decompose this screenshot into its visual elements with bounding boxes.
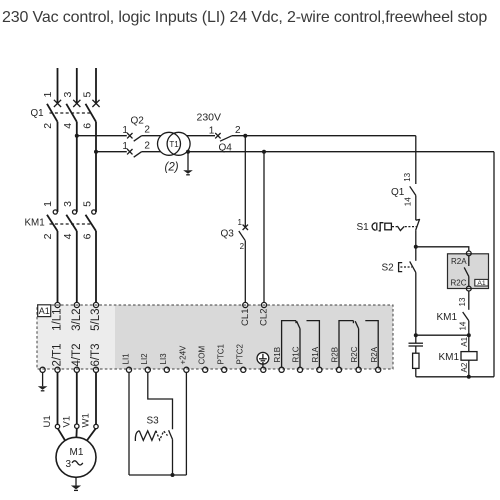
- wire L3 tap to Q2 lower pole: [96, 151, 127, 153]
- aux contact KM1 13-14 blade: [463, 312, 469, 321]
- svg-text:R2C: R2C: [350, 346, 359, 362]
- svg-text:W1: W1: [81, 413, 92, 427]
- breaker Q1 pole 3 blade: [86, 104, 97, 122]
- relay R1 NO arm R1A: [307, 321, 320, 368]
- switch S2 link dashes: [400, 266, 412, 268]
- wire resistor to bottom rail: [415, 368, 417, 376]
- svg-text:5/L3: 5/L3: [90, 309, 102, 331]
- relay R1 changeover contact riser R1B: [282, 321, 296, 368]
- switch S1 NC seat tick: [416, 218, 420, 221]
- motor terminal U1 circle: [55, 424, 59, 428]
- aux contact Q1 13-14 blade: [410, 186, 416, 195]
- breaker Q2 lower pole terminal X: [127, 149, 132, 154]
- svg-text:13: 13: [403, 172, 412, 181]
- contactor KM1 pole 2 terminal circle: [73, 210, 77, 214]
- soft starter block A1 light fill: [37, 305, 115, 369]
- transformer T1 secondary circle: [167, 132, 190, 155]
- transformer T1 primary circle: [158, 132, 181, 155]
- svg-text:1: 1: [122, 141, 128, 152]
- svg-text:Q4: Q4: [219, 143, 233, 154]
- svg-text:1: 1: [122, 125, 128, 136]
- wire junction to R2A box: [416, 247, 469, 251]
- terminal R2B circle: [336, 367, 341, 372]
- wire L2 Q1 to KM1: [76, 122, 78, 212]
- svg-text:3: 3: [62, 92, 74, 98]
- wire PE terminal to ground: [42, 372, 44, 386]
- earth symbol circled cross: [257, 352, 269, 367]
- svg-text:4: 4: [62, 123, 74, 129]
- breaker Q4 blade: [220, 136, 232, 142]
- wire CL1 riser lower: [244, 241, 246, 303]
- svg-text:2: 2: [42, 233, 54, 239]
- node junction CL2 tap: [262, 150, 266, 154]
- svg-text:2: 2: [144, 140, 150, 151]
- wire phase L2 incoming: [76, 68, 78, 103]
- svg-text:Q2: Q2: [131, 116, 145, 127]
- switch S3 thermal zigzag symbol: [135, 431, 156, 441]
- contactor coil KM1 box: [461, 352, 477, 361]
- wire L3 KM1 to block: [95, 231, 97, 303]
- relay output box R2 of A1: [448, 254, 489, 289]
- terminal CL1 circle: [243, 302, 248, 307]
- switch S1 reset v symbol: [397, 226, 404, 231]
- wire Q2 upper to transformer: [142, 135, 161, 137]
- terminal CL2 circle: [261, 302, 266, 307]
- wire S3 to bottom link: [172, 439, 174, 475]
- terminal PTC2 circle: [241, 367, 246, 372]
- svg-text:(2): (2): [165, 162, 179, 174]
- wire L2 tap to Q2 upper pole: [77, 135, 127, 137]
- device tag A1 small box: [475, 279, 488, 286]
- terminal R1A circle: [317, 367, 322, 372]
- relay R1 blade: [297, 321, 300, 328]
- node junction L2 to control tap: [75, 134, 79, 138]
- svg-text:S3: S3: [147, 416, 160, 427]
- svg-text:COM: COM: [198, 346, 207, 365]
- svg-text:5: 5: [81, 201, 93, 207]
- svg-text:+24V: +24V: [179, 345, 188, 365]
- svg-text:14: 14: [404, 197, 413, 206]
- terminal 6/T3 circle: [93, 367, 98, 372]
- wire CL2 riser: [263, 152, 265, 303]
- switch S1 mushroom head actuator: [372, 223, 377, 231]
- svg-text:A1: A1: [39, 306, 50, 316]
- svg-text:PTC2: PTC2: [236, 344, 245, 365]
- node junction T1 ground tap: [186, 150, 190, 154]
- breaker Q1 pole 2 terminal X: [73, 100, 80, 107]
- switch S3 NO blade: [169, 430, 173, 439]
- wire L2 KM1 to block: [76, 231, 78, 303]
- wire +24V down: [185, 372, 187, 475]
- svg-text:R2B: R2B: [331, 347, 340, 363]
- wire phase L1 incoming: [57, 68, 59, 103]
- svg-text:CL2: CL2: [259, 309, 270, 326]
- switch S1 NC blade: [416, 219, 420, 230]
- svg-text:4: 4: [62, 233, 74, 239]
- ground symbol at T1 (arrow): [183, 170, 193, 174]
- svg-text:6/T3: 6/T3: [90, 343, 102, 366]
- svg-text:R2A: R2A: [370, 346, 379, 362]
- contactor KM1 pole 3 terminal circle: [92, 210, 96, 214]
- wire bottom control rail: [416, 376, 494, 378]
- svg-text:CL1: CL1: [240, 309, 251, 326]
- svg-text:A2: A2: [460, 362, 469, 372]
- wire Q4 out to right corner: [232, 135, 416, 137]
- relay R2 changeover contact riser R2B: [339, 321, 353, 368]
- wire coil to bottom rail: [468, 360, 470, 377]
- svg-text:LI3: LI3: [159, 353, 168, 365]
- svg-text:LI2: LI2: [140, 353, 149, 365]
- wire LI2 down and over: [148, 372, 173, 429]
- breaker Q1 pole 1 terminal X: [54, 100, 61, 107]
- svg-text:Q3: Q3: [221, 229, 235, 240]
- terminal 2/T1 circle: [55, 367, 60, 372]
- breaker Q1 pole 1 blade: [47, 104, 58, 122]
- switch S1 latch hook: [379, 223, 384, 231]
- terminal R1C circle: [297, 367, 302, 372]
- breaker Q2 lower pole blade: [134, 152, 142, 158]
- contactor KM1 pole 1 terminal circle: [53, 210, 57, 214]
- svg-text:2: 2: [235, 125, 241, 136]
- terminal R2A circle: [376, 367, 381, 372]
- wire U1 into motor: [58, 429, 65, 441]
- svg-text:U1: U1: [42, 415, 53, 427]
- svg-text:S1: S1: [357, 222, 370, 233]
- relay R2 blade: [355, 321, 358, 328]
- wire ground drop from T1: [187, 152, 189, 171]
- breaker Q4 terminal X: [215, 133, 220, 138]
- breaker Q2 upper pole blade: [134, 136, 142, 142]
- svg-text:M1: M1: [70, 447, 84, 458]
- svg-text:Q1: Q1: [391, 187, 405, 198]
- wire V1 into motor: [75, 428, 77, 437]
- svg-text:V1: V1: [61, 416, 72, 428]
- terminal +24V circle: [184, 367, 189, 372]
- terminal R1B circle: [279, 367, 284, 372]
- relay R2 contact lower riser: [468, 276, 470, 286]
- svg-text:R1B: R1B: [273, 347, 282, 363]
- breaker Q1 pole 2 blade: [66, 104, 77, 122]
- svg-text:R1C: R1C: [292, 346, 301, 362]
- svg-text:1/L1: 1/L1: [52, 309, 64, 331]
- svg-text:LI1: LI1: [121, 353, 130, 365]
- terminal LI1 circle: [126, 367, 131, 372]
- node junction S1-S2 to R2 relay: [414, 245, 418, 249]
- switch S1 latch square: [385, 223, 392, 230]
- svg-text:R1A: R1A: [311, 346, 320, 362]
- svg-text:R2A: R2A: [451, 257, 467, 266]
- relay R2A terminal circle: [466, 251, 471, 256]
- breaker Q3 blade: [239, 231, 246, 241]
- node junction L3 to control tap: [94, 150, 98, 154]
- wire motor to ground: [75, 477, 77, 485]
- wire KM1 aux to coil junction: [468, 321, 470, 352]
- relay R2 contact riser: [468, 256, 470, 266]
- breaker Q1 mechanical link dashed: [50, 112, 93, 114]
- node junction KM1 coil top: [467, 333, 471, 337]
- switch S1 link dashes to contact: [405, 226, 417, 228]
- capacitor of RC snubber plate 1: [409, 342, 424, 344]
- motor M1 circle: [56, 437, 96, 477]
- wire S2 to lower junction: [415, 272, 417, 343]
- svg-text:A1: A1: [477, 280, 486, 287]
- svg-text:14: 14: [459, 321, 468, 330]
- wire T3 output to motor W1: [95, 372, 97, 424]
- wire LI1 down: [128, 372, 130, 475]
- terminal LI3 circle: [164, 367, 169, 372]
- svg-text:KM1: KM1: [437, 312, 458, 323]
- svg-text:R2C: R2C: [451, 278, 467, 287]
- relay R2 fixed contact nib: [352, 321, 354, 324]
- svg-text:1: 1: [237, 218, 242, 227]
- contactor KM1 pole 3 blade: [86, 215, 97, 231]
- node junction CL1 tap: [243, 134, 247, 138]
- wire L3 Q1 to KM1: [95, 122, 97, 212]
- relay R2 contact blade: [464, 267, 469, 276]
- svg-text:230V: 230V: [197, 112, 222, 124]
- switch S2 pushbutton actuator: [399, 263, 403, 272]
- relay R2 NO arm R2A: [365, 321, 378, 368]
- wire bottom link LI1 to +24V: [129, 474, 186, 476]
- device tag A1 box top-left: [38, 305, 51, 317]
- motor sine symbol: [72, 461, 83, 465]
- wire capacitor to resistor: [415, 346, 417, 353]
- svg-text:A1: A1: [460, 336, 469, 346]
- svg-text:KM1: KM1: [25, 218, 45, 229]
- svg-text:KM1: KM1: [439, 352, 460, 363]
- svg-text:3: 3: [66, 459, 72, 470]
- wire CL1 riser upper: [244, 136, 246, 228]
- svg-text:2: 2: [42, 123, 54, 129]
- ground symbol at block (arrow): [38, 386, 48, 390]
- contactor KM1 pole 1 blade: [47, 215, 58, 231]
- terminal 5/L3 circle: [93, 302, 98, 307]
- relay R1 fixed contact nib: [295, 321, 297, 324]
- terminal 4/T2 circle: [74, 367, 79, 372]
- ground symbol at motor (arrow): [71, 486, 81, 490]
- terminal PTC1 circle: [222, 367, 227, 372]
- switch S1 link dashes: [392, 226, 397, 228]
- node junction S3 output: [171, 473, 175, 477]
- wire Q2 lower to transformer: [142, 151, 161, 153]
- terminal R2C circle: [356, 367, 361, 372]
- breaker Q2 upper pole terminal X: [127, 133, 132, 138]
- contactor KM1 mechanical link dashed: [50, 223, 93, 225]
- terminal LI2 circle: [145, 367, 150, 372]
- svg-text:5: 5: [81, 92, 93, 98]
- terminal 3/L2 circle: [74, 302, 79, 307]
- soft starter block A1 dark fill: [115, 305, 393, 369]
- svg-text:3: 3: [62, 201, 74, 207]
- svg-text:3/L2: 3/L2: [71, 309, 83, 331]
- svg-text:2: 2: [144, 124, 150, 135]
- wire right control drop: [415, 136, 417, 184]
- wire T2 output to motor V1: [76, 372, 78, 424]
- svg-text:2: 2: [240, 242, 245, 251]
- soft starter block A1 dashed border: [37, 305, 393, 369]
- wire R2C to KM1 aux: [468, 291, 470, 310]
- switch S2 NO blade: [410, 261, 416, 272]
- switch S3 zigzag dashed tail: [156, 431, 168, 440]
- motor terminal V1 circle: [75, 424, 79, 428]
- relay R2 common riser R2C: [358, 329, 360, 368]
- terminal PE circle bottom-left: [40, 367, 45, 372]
- node junction coil bottom: [467, 375, 471, 379]
- svg-text:1: 1: [42, 92, 54, 98]
- svg-text:13: 13: [458, 297, 467, 306]
- resistor of RC snubber: [413, 353, 419, 368]
- relay R2C terminal circle: [466, 286, 471, 291]
- wire T1 output to motor U1: [57, 372, 59, 424]
- wire T1 secondary lower out: [187, 151, 495, 153]
- relay R1 common riser R1C: [299, 329, 301, 368]
- svg-text:6: 6: [81, 233, 93, 239]
- svg-text:T1: T1: [169, 140, 179, 149]
- contactor KM1 pole 2 blade: [66, 215, 77, 231]
- terminal 1/L1 circle: [55, 302, 60, 307]
- wire far right rail down: [493, 152, 495, 377]
- wire S1 to junction: [415, 230, 417, 260]
- wire phase L3 incoming: [95, 68, 97, 103]
- wire L1 Q1 to KM1: [57, 122, 59, 212]
- svg-text:Q1: Q1: [31, 108, 44, 119]
- node junction RC branch top: [414, 333, 418, 337]
- svg-text:PTC1: PTC1: [217, 344, 226, 365]
- breaker Q1 pole 3 terminal X: [92, 100, 99, 107]
- breaker Q3 terminal X: [243, 225, 248, 230]
- svg-text:1: 1: [42, 201, 54, 207]
- svg-text:4/T2: 4/T2: [71, 343, 83, 366]
- capacitor of RC snubber plate 2: [409, 345, 424, 347]
- svg-text:230 Vac control, logic Inputs: 230 Vac control, logic Inputs (LI) 24 Vd…: [2, 9, 487, 26]
- svg-text:6: 6: [81, 123, 93, 129]
- wire Q1 aux to S1: [415, 195, 417, 220]
- wire L1 KM1 to block: [57, 231, 59, 303]
- wire W1 into motor: [87, 429, 96, 441]
- svg-text:2/T1: 2/T1: [52, 343, 64, 366]
- svg-text:S2: S2: [382, 263, 395, 274]
- terminal COM circle: [203, 367, 208, 372]
- wire junction to KM1 branch: [416, 334, 469, 336]
- terminal earth circle: [261, 367, 266, 372]
- wire T1 secondary upper out: [186, 135, 215, 137]
- svg-text:1: 1: [209, 126, 215, 137]
- motor terminal W1 circle: [94, 424, 98, 428]
